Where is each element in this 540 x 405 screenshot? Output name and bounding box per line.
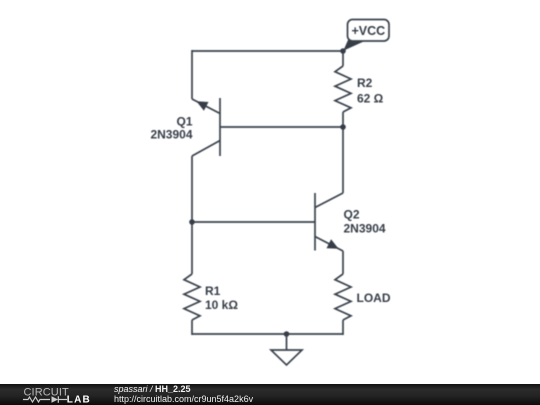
label: Q2 2N3904 — [344, 208, 386, 236]
svg-text:R1: R1 — [205, 284, 221, 298]
node: Q2 base junction — [189, 219, 195, 225]
wire: Q1 emitter riser — [191, 50, 193, 99]
svg-text:CIRCUIT: CIRCUIT — [24, 387, 69, 399]
footer title — [114, 384, 414, 394]
label: Q1 2N3904 — [150, 114, 192, 141]
power flag +VCC — [343, 20, 389, 51]
svg-text:LOAD: LOAD — [357, 291, 391, 305]
svg-text:Q1: Q1 — [176, 114, 192, 128]
svg-text:10 kΩ: 10 kΩ — [205, 298, 238, 312]
label: R1 10 kohm — [205, 284, 238, 312]
svg-text:2N3904: 2N3904 — [344, 222, 386, 236]
resistor R2 — [335, 51, 351, 127]
wire: bottom ground rail — [192, 333, 343, 335]
node: R2 bottom / Q1 base / Q2 collector — [340, 124, 346, 130]
svg-text:+VCC: +VCC — [351, 24, 385, 38]
label: R2 62 ohm — [357, 76, 384, 105]
wire: top VCC rail — [192, 50, 343, 52]
resistor LOAD — [335, 274, 351, 335]
wire: Q1 base to R2/Q2 node — [220, 126, 343, 128]
svg-text:R2: R2 — [357, 76, 373, 90]
node: VCC junction — [340, 48, 346, 54]
svg-text:LAB: LAB — [67, 395, 91, 405]
footer url — [114, 394, 414, 404]
svg-text:2N3904: 2N3904 — [150, 128, 192, 142]
wire: left rail Q1 collector to R1 — [191, 156, 193, 274]
node: ground junction — [284, 331, 290, 337]
wire: Q2 base — [192, 221, 315, 223]
svg-text:62 Ω: 62 Ω — [357, 91, 384, 105]
transistor Q2 — [315, 193, 343, 251]
resistor R1 — [184, 274, 200, 335]
ground — [271, 334, 302, 365]
wire: Q2 emitter drop — [342, 251, 344, 274]
svg-text:Q2: Q2 — [344, 208, 360, 222]
CircuitLab logo — [0, 384, 110, 405]
wire: Q2 collector riser — [342, 127, 344, 193]
footer bar — [0, 384, 540, 405]
transistor Q1 — [192, 98, 220, 156]
